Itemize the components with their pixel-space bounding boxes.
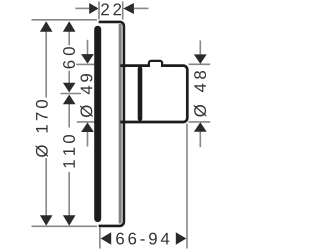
dimension line Ø49 tails xyxy=(87,40,89,55)
dimension line Ø48 tails xyxy=(199,40,201,55)
handle front face bar xyxy=(138,69,143,119)
label Ø170 xyxy=(36,100,48,157)
plate front face bar xyxy=(94,29,101,218)
plate inner gray line xyxy=(119,24,122,224)
handle tab xyxy=(149,61,162,67)
arrow 60 top xyxy=(63,21,76,31)
label Ø49 xyxy=(80,74,92,117)
dimension line 60 (vertical, x=69.2) xyxy=(68,29,70,45)
extension line top-left (plate top level) xyxy=(32,19,98,21)
dimension 22 left tail xyxy=(75,7,89,9)
extension line bottom-left (plate bottom level) xyxy=(32,225,98,227)
label Ø48 xyxy=(194,71,206,117)
arrow 110 top (bowtie lower) xyxy=(63,95,76,105)
extension line 22 left xyxy=(98,2,100,20)
arrow 66-94 left xyxy=(101,232,112,245)
extension line Ø49 lower (left of plate) xyxy=(77,121,96,123)
arrow 66-94 right xyxy=(176,232,187,245)
arrow Ø170 bottom xyxy=(40,215,53,225)
dimension line 110 (vertical, x=69.2) xyxy=(68,104,70,128)
label 60 xyxy=(63,47,75,68)
handle outline (top, right, bottom edges) xyxy=(120,66,187,122)
arrow Ø48 upper xyxy=(194,54,207,64)
extension line 22 right xyxy=(122,2,124,20)
extension line Ø48 lower (right of handle) xyxy=(189,121,211,123)
arrow Ø170 top xyxy=(40,21,53,31)
center tick at handle axis xyxy=(61,93,82,95)
arrow 22 right xyxy=(123,3,134,14)
arrow Ø49 lower xyxy=(81,123,94,133)
dimension 22 right tail xyxy=(134,7,149,9)
label 66-94 xyxy=(116,233,169,245)
extension line Ø49 upper (left of plate) xyxy=(76,63,95,65)
arrow Ø49 upper xyxy=(81,54,94,64)
extension line Ø48 upper (right of handle) xyxy=(189,63,211,65)
escutcheon plate outline xyxy=(99,22,124,226)
arrow 110 bottom xyxy=(63,215,76,225)
dimension line Ø170 (vertical, x=46.2) xyxy=(45,29,47,98)
arrow 60 bottom (bowtie upper) xyxy=(63,83,76,93)
extension line 66-94 left (below plate) xyxy=(99,228,101,249)
extension line 66-94 right (below handle front) xyxy=(186,124,188,249)
label 110 xyxy=(63,135,75,168)
label 22 xyxy=(101,3,109,15)
arrow Ø48 lower xyxy=(194,122,207,132)
arrow 22 left xyxy=(89,3,98,14)
